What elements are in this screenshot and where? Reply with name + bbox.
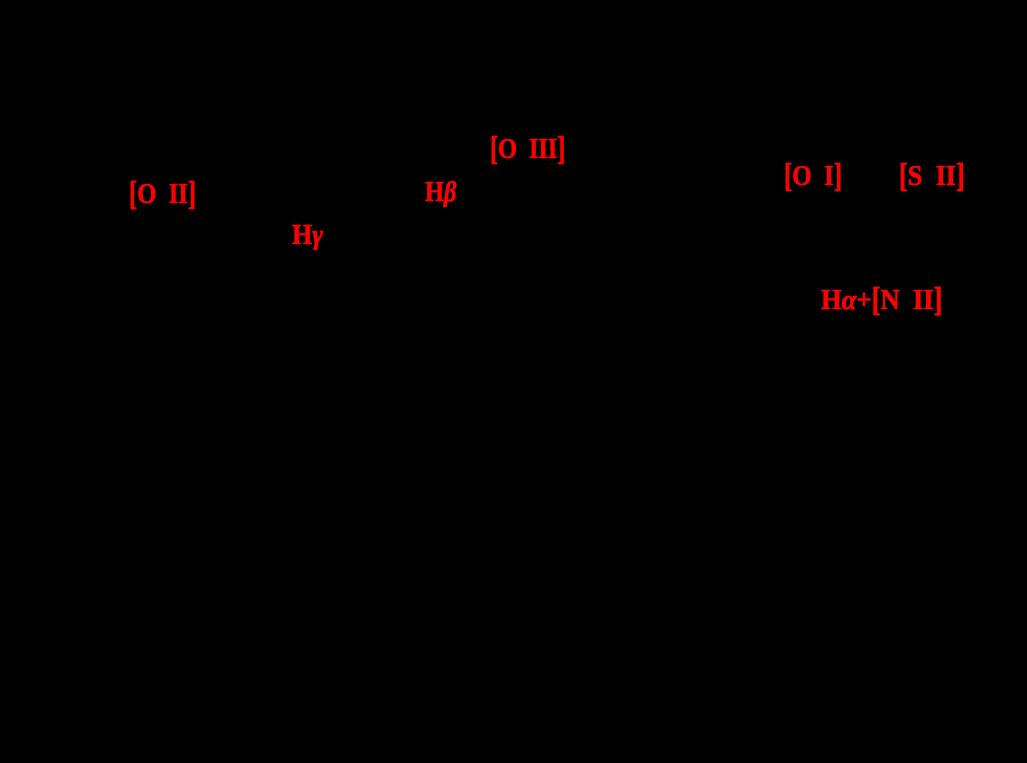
label [O III] line annotation	[490, 136, 565, 164]
label Halpha+[N II] line annotation	[821, 287, 943, 315]
label [O I] line annotation	[784, 163, 842, 191]
label [O II] line annotation	[129, 181, 196, 209]
label [S II] line annotation	[899, 163, 965, 191]
label Hgamma line annotation	[292, 222, 323, 250]
label Hbeta line annotation	[425, 179, 456, 207]
